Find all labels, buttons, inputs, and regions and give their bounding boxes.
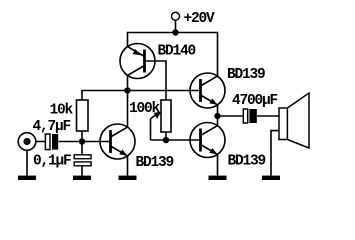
svg-text:BD139: BD139 — [227, 67, 265, 83]
svg-text:0,1µF: 0,1µF — [33, 154, 71, 170]
svg-text:BD139: BD139 — [136, 155, 174, 171]
svg-text:+20V: +20V — [184, 11, 216, 27]
svg-text:100k: 100k — [129, 101, 161, 117]
svg-text:BD139: BD139 — [228, 154, 266, 170]
svg-text:4,7µF: 4,7µF — [33, 119, 71, 135]
svg-text:BD140: BD140 — [158, 44, 196, 60]
svg-text:10k: 10k — [50, 103, 74, 119]
svg-text:4700µF: 4700µF — [232, 93, 278, 109]
